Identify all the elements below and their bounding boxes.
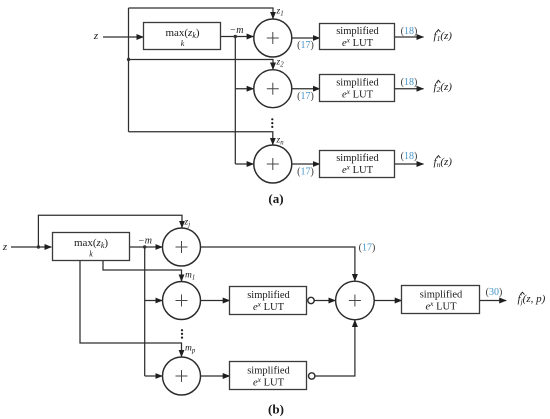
svg-text:zj: zj (184, 218, 191, 229)
svg-text:z1: z1 (276, 7, 284, 18)
svg-text:(17): (17) (359, 243, 376, 254)
svg-text:simplified: simplified (247, 290, 290, 301)
svg-text:(17): (17) (297, 91, 314, 102)
svg-text:−m: −m (138, 236, 152, 247)
svg-text:f1(z): f1(z) (434, 30, 453, 43)
svg-text:k: k (181, 39, 185, 48)
svg-text:(b): (b) (268, 402, 284, 417)
svg-text:f2(z): f2(z) (434, 81, 453, 94)
svg-text:simplified: simplified (336, 78, 379, 89)
svg-text:−m: −m (230, 25, 244, 36)
svg-text:(18): (18) (401, 77, 418, 88)
svg-text:z2: z2 (276, 58, 285, 69)
svg-text:simplified: simplified (336, 26, 379, 37)
svg-text:simplified: simplified (336, 153, 379, 164)
svg-text:(30): (30) (486, 287, 503, 298)
svg-text:simplified: simplified (247, 366, 290, 377)
svg-text:m1: m1 (185, 271, 195, 282)
svg-text:(a): (a) (268, 191, 283, 206)
svg-text:simplified: simplified (420, 290, 463, 301)
svg-text:(18): (18) (401, 26, 418, 37)
svg-text:z: z (93, 30, 99, 42)
svg-text:k: k (89, 250, 93, 259)
svg-text:fn(z): fn(z) (434, 156, 453, 169)
svg-text:fj(z, p): fj(z, p) (518, 293, 546, 306)
svg-text:(17): (17) (297, 40, 314, 51)
svg-text:mp: mp (185, 344, 196, 355)
svg-text:z: z (2, 241, 8, 253)
svg-text:(17): (17) (297, 167, 314, 178)
svg-text:(18): (18) (401, 151, 418, 162)
